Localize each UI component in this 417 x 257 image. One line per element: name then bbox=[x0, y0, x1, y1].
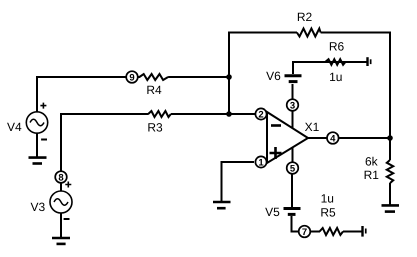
node 4 bbox=[327, 132, 339, 144]
svg-text:V3: V3 bbox=[31, 200, 46, 214]
wire R3 left segment bbox=[61, 113, 149, 115]
battery V6 bbox=[285, 76, 302, 82]
svg-text:X1: X1 bbox=[305, 120, 320, 134]
V3 plus mark bbox=[65, 182, 71, 188]
op-amp X1 triangle bbox=[267, 112, 308, 163]
voltage source V3 bbox=[50, 191, 72, 213]
ground (R1) bbox=[382, 205, 400, 211]
resistor R2 bbox=[297, 29, 321, 37]
svg-text:R3: R3 bbox=[147, 121, 163, 135]
node 7 bbox=[299, 226, 311, 238]
wire output junction down to R1 bbox=[389, 138, 391, 160]
wire feedback right vertical bbox=[389, 32, 391, 139]
wire feedback left vertical bbox=[228, 33, 230, 115]
capacitor plate terminal (R5 end) bbox=[361, 226, 366, 237]
ground (V4) bbox=[29, 158, 47, 164]
svg-text:5: 5 bbox=[290, 163, 296, 174]
junction dot (R3 / inverting input) bbox=[226, 111, 232, 117]
V4 plus mark bbox=[40, 103, 46, 109]
svg-text:8: 8 bbox=[58, 172, 63, 183]
wire R1 to ground bbox=[389, 183, 391, 205]
wire V5 bottom lead to node 7 bbox=[292, 216, 300, 233]
op-amp plus sign bbox=[270, 147, 282, 159]
resistor R5 bbox=[320, 228, 343, 235]
node 1 bbox=[255, 156, 266, 168]
wire node 2 to op-amp bbox=[266, 113, 268, 115]
wire R4 to junction bbox=[168, 76, 229, 78]
V4 minus mark bbox=[41, 139, 47, 141]
wire top-left horizontal to node 9 bbox=[36, 76, 127, 78]
node 5 bbox=[287, 162, 299, 174]
wire V3 bottom lead bbox=[60, 213, 62, 238]
svg-text:R5: R5 bbox=[320, 205, 336, 219]
svg-text:1u: 1u bbox=[321, 191, 334, 205]
wire node9 to R4 bbox=[138, 76, 140, 78]
svg-text:R4: R4 bbox=[146, 83, 162, 97]
wire node 3 to op-amp top bbox=[292, 110, 294, 129]
junction dot (output node) bbox=[387, 135, 393, 141]
wire +input to ground bbox=[222, 161, 255, 201]
op-amp minus sign bbox=[271, 124, 281, 127]
wire node 3 up to V6 bbox=[292, 84, 294, 99]
wire V4 bottom lead bbox=[36, 133, 38, 157]
wire node 1 left segment bbox=[255, 161, 268, 163]
node 3 bbox=[287, 99, 299, 111]
wire node 7 to R5 bbox=[311, 231, 320, 233]
svg-text:2: 2 bbox=[258, 109, 263, 120]
svg-text:R2: R2 bbox=[297, 10, 313, 24]
svg-text:V5: V5 bbox=[265, 205, 280, 219]
node 2 bbox=[255, 108, 266, 120]
wire R2 top right segment bbox=[321, 32, 391, 34]
wire R3 down to node 8 bbox=[60, 113, 62, 171]
resistor R3 bbox=[148, 111, 171, 117]
svg-text:4: 4 bbox=[330, 133, 336, 144]
wire node 8 to V3 bbox=[60, 183, 62, 191]
svg-text:R6: R6 bbox=[329, 40, 345, 54]
svg-text:V4: V4 bbox=[7, 120, 22, 134]
ground (V3) bbox=[52, 238, 70, 244]
wire node 5 to op-amp bottom bbox=[292, 147, 294, 163]
voltage source V4 bbox=[26, 112, 47, 133]
battery V5 bbox=[284, 209, 301, 215]
capacitor plate terminal (R6 end) bbox=[366, 57, 371, 66]
svg-text:R1: R1 bbox=[364, 168, 380, 182]
svg-text:6k: 6k bbox=[365, 155, 379, 169]
junction dot (R4 / feedback column) bbox=[226, 74, 232, 80]
wire R2 top left segment bbox=[228, 32, 297, 34]
svg-text:3: 3 bbox=[290, 100, 295, 111]
wire node 5 down to V5 bbox=[291, 174, 293, 207]
wire R3 to junction bbox=[171, 113, 229, 115]
wire op-amp output to node 4 bbox=[308, 137, 327, 139]
svg-text:1: 1 bbox=[258, 157, 264, 168]
node 8 bbox=[55, 171, 67, 183]
node 9 bbox=[126, 71, 138, 83]
svg-text:1u: 1u bbox=[329, 70, 342, 84]
wire R5 to plate bbox=[343, 231, 362, 233]
svg-text:9: 9 bbox=[129, 72, 134, 83]
wire V4 top lead bbox=[36, 77, 38, 112]
wire junction to node 2 bbox=[229, 113, 255, 115]
svg-text:7: 7 bbox=[302, 227, 307, 238]
svg-text:V6: V6 bbox=[266, 69, 281, 83]
wire V6 top lead bbox=[292, 62, 367, 74]
V3 minus mark bbox=[64, 218, 70, 220]
wire node 4 to output junction bbox=[339, 137, 390, 139]
resistor R1 bbox=[387, 160, 393, 183]
resistor R6 bbox=[325, 59, 345, 65]
ground (+ input) bbox=[213, 202, 231, 208]
resistor R4 bbox=[139, 74, 168, 80]
